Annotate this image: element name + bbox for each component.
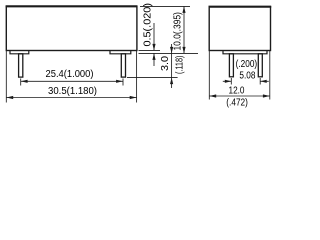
extension line right for 12.0 xyxy=(269,51,271,100)
svg-text:(.472): (.472) xyxy=(226,97,248,108)
top extension line for 10.0 xyxy=(140,5,190,7)
tick below right leg for 25.4 xyxy=(122,79,124,86)
side view body top edge (thick) xyxy=(209,6,272,8)
pin tip extension line xyxy=(127,77,178,79)
arrowhead 5.08 left (outside, pointing right) xyxy=(225,80,232,83)
front view left pin leg xyxy=(19,54,23,77)
arrowhead 25.4 left xyxy=(21,80,28,83)
side view pin shoulder strip xyxy=(223,51,267,54)
front view body top edge (thick) xyxy=(6,5,138,7)
dimension line 25.4 xyxy=(21,80,123,82)
arrowhead 30.5 left xyxy=(6,96,13,99)
arrowhead 0.5 up (apex on seating plane) xyxy=(152,53,155,60)
front view left pin shoulder xyxy=(10,51,29,54)
0.5 dim upper arrow stem xyxy=(153,23,155,50)
arrowhead 30.5 right xyxy=(130,96,137,99)
tick below side right leg xyxy=(259,78,261,85)
5.08 dim right outside segment xyxy=(260,80,269,82)
front view body xyxy=(6,6,137,50)
extension line left for 12.0 xyxy=(208,51,210,100)
svg-text:(.118): (.118) xyxy=(175,56,186,75)
arrowhead 0.5 down (apex on body bottom ext) xyxy=(152,44,155,51)
svg-text:25.4(1.000): 25.4(1.000) xyxy=(46,69,94,80)
seating plane extension line xyxy=(139,52,199,54)
arrowhead 12.0 left xyxy=(209,94,216,97)
arrowhead 10.0 down xyxy=(182,47,185,54)
front view right pin leg xyxy=(121,54,125,77)
tick below left leg for 25.4 xyxy=(20,79,22,86)
svg-text:10.0(.395): 10.0(.395) xyxy=(173,12,184,51)
arrowhead 3.0 bottom (below pin tip line, pointing up) xyxy=(170,78,173,85)
side view left pin leg xyxy=(229,54,233,77)
svg-text:12.0: 12.0 xyxy=(229,86,245,97)
svg-text:3.0: 3.0 xyxy=(160,55,171,71)
3.0 dim stem xyxy=(171,44,173,88)
arrowhead 10.0 up xyxy=(182,6,185,12)
0.5 dim lower arrow stem xyxy=(153,53,155,66)
dimension line 30.5 xyxy=(6,97,136,99)
dimension line 12.0 xyxy=(209,95,269,97)
5.08 dim left outside segment xyxy=(223,80,232,82)
arrowhead 12.0 right xyxy=(263,94,270,97)
arrowhead 3.0 top (above seating plane, pointing down) xyxy=(170,47,173,54)
arrowhead 25.4 right xyxy=(116,80,123,83)
side view body xyxy=(209,7,270,51)
arrowhead 5.08 right (outside, pointing left) xyxy=(260,80,267,83)
side view right pin leg xyxy=(258,54,262,77)
extension line right for 30.5 xyxy=(136,51,138,103)
svg-text:0.5(.020): 0.5(.020) xyxy=(143,3,154,47)
extension line left for 30.5 xyxy=(5,51,7,103)
tick below side left leg xyxy=(230,78,232,85)
10.0 dim stem xyxy=(183,6,185,53)
front view right pin shoulder xyxy=(110,51,131,54)
body bottom extension line for 0.5 xyxy=(139,49,161,51)
svg-text:30.5(1.180): 30.5(1.180) xyxy=(48,86,97,97)
svg-text:5.08: 5.08 xyxy=(239,71,255,82)
svg-text:(.200): (.200) xyxy=(236,59,258,70)
